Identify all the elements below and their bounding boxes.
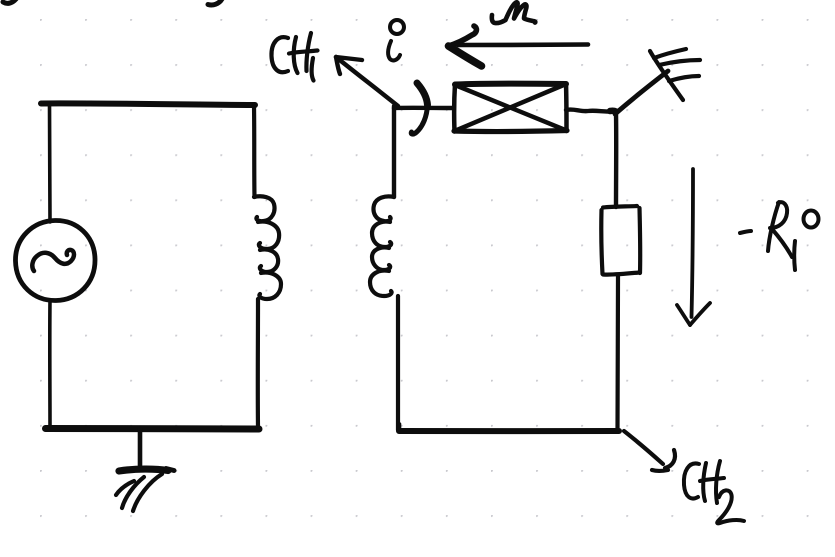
resistor R1 — [601, 206, 640, 275]
label u — [492, 2, 535, 23]
wire: right circuit top-left horizontal — [394, 106, 452, 111]
inductor L1 — [254, 196, 281, 299]
label CH2 — [684, 461, 744, 523]
wire: right circuit left side, upper — [392, 106, 396, 197]
wire: left circuit top — [41, 103, 255, 105]
wire: left circuit left side, source bottom lead — [48, 301, 52, 428]
wire: left circuit bottom — [46, 425, 260, 433]
wire: left circuit left side, source top lead — [48, 104, 52, 222]
wire: left circuit right side, upper — [252, 106, 257, 197]
label -R1^0 — [740, 202, 819, 270]
wire: box to node A — [566, 109, 611, 111]
wire: resistor R1 to bottom — [615, 276, 620, 430]
wire: right circuit left side, lower — [396, 296, 400, 430]
wire: right circuit bottom — [399, 424, 619, 431]
wire: left circuit right side, lower — [256, 299, 260, 427]
stray handwriting stroke (cut off, top middle) — [208, 0, 222, 5]
arrow for u — [449, 26, 589, 66]
ground — [116, 429, 174, 511]
arrow to CH2 — [624, 431, 675, 471]
crossed box (transducer) — [454, 84, 567, 132]
label CH1 — [271, 33, 317, 81]
arrow to CH1 — [336, 57, 398, 106]
node A junction — [610, 108, 616, 115]
current direction mark on wire — [411, 83, 427, 134]
wire: node A down to resistor R1 — [614, 113, 619, 207]
label i — [388, 20, 404, 60]
AC source G1 — [15, 220, 95, 300]
wire: node A diagonal lead to chassis symbol — [615, 71, 668, 114]
arrow for -R1^0 (voltage direction) — [677, 169, 710, 325]
stray handwriting stroke (cut off, top left) — [3, 0, 16, 3]
chassis/antenna symbol — [650, 49, 700, 100]
inductor L2 — [370, 196, 394, 296]
